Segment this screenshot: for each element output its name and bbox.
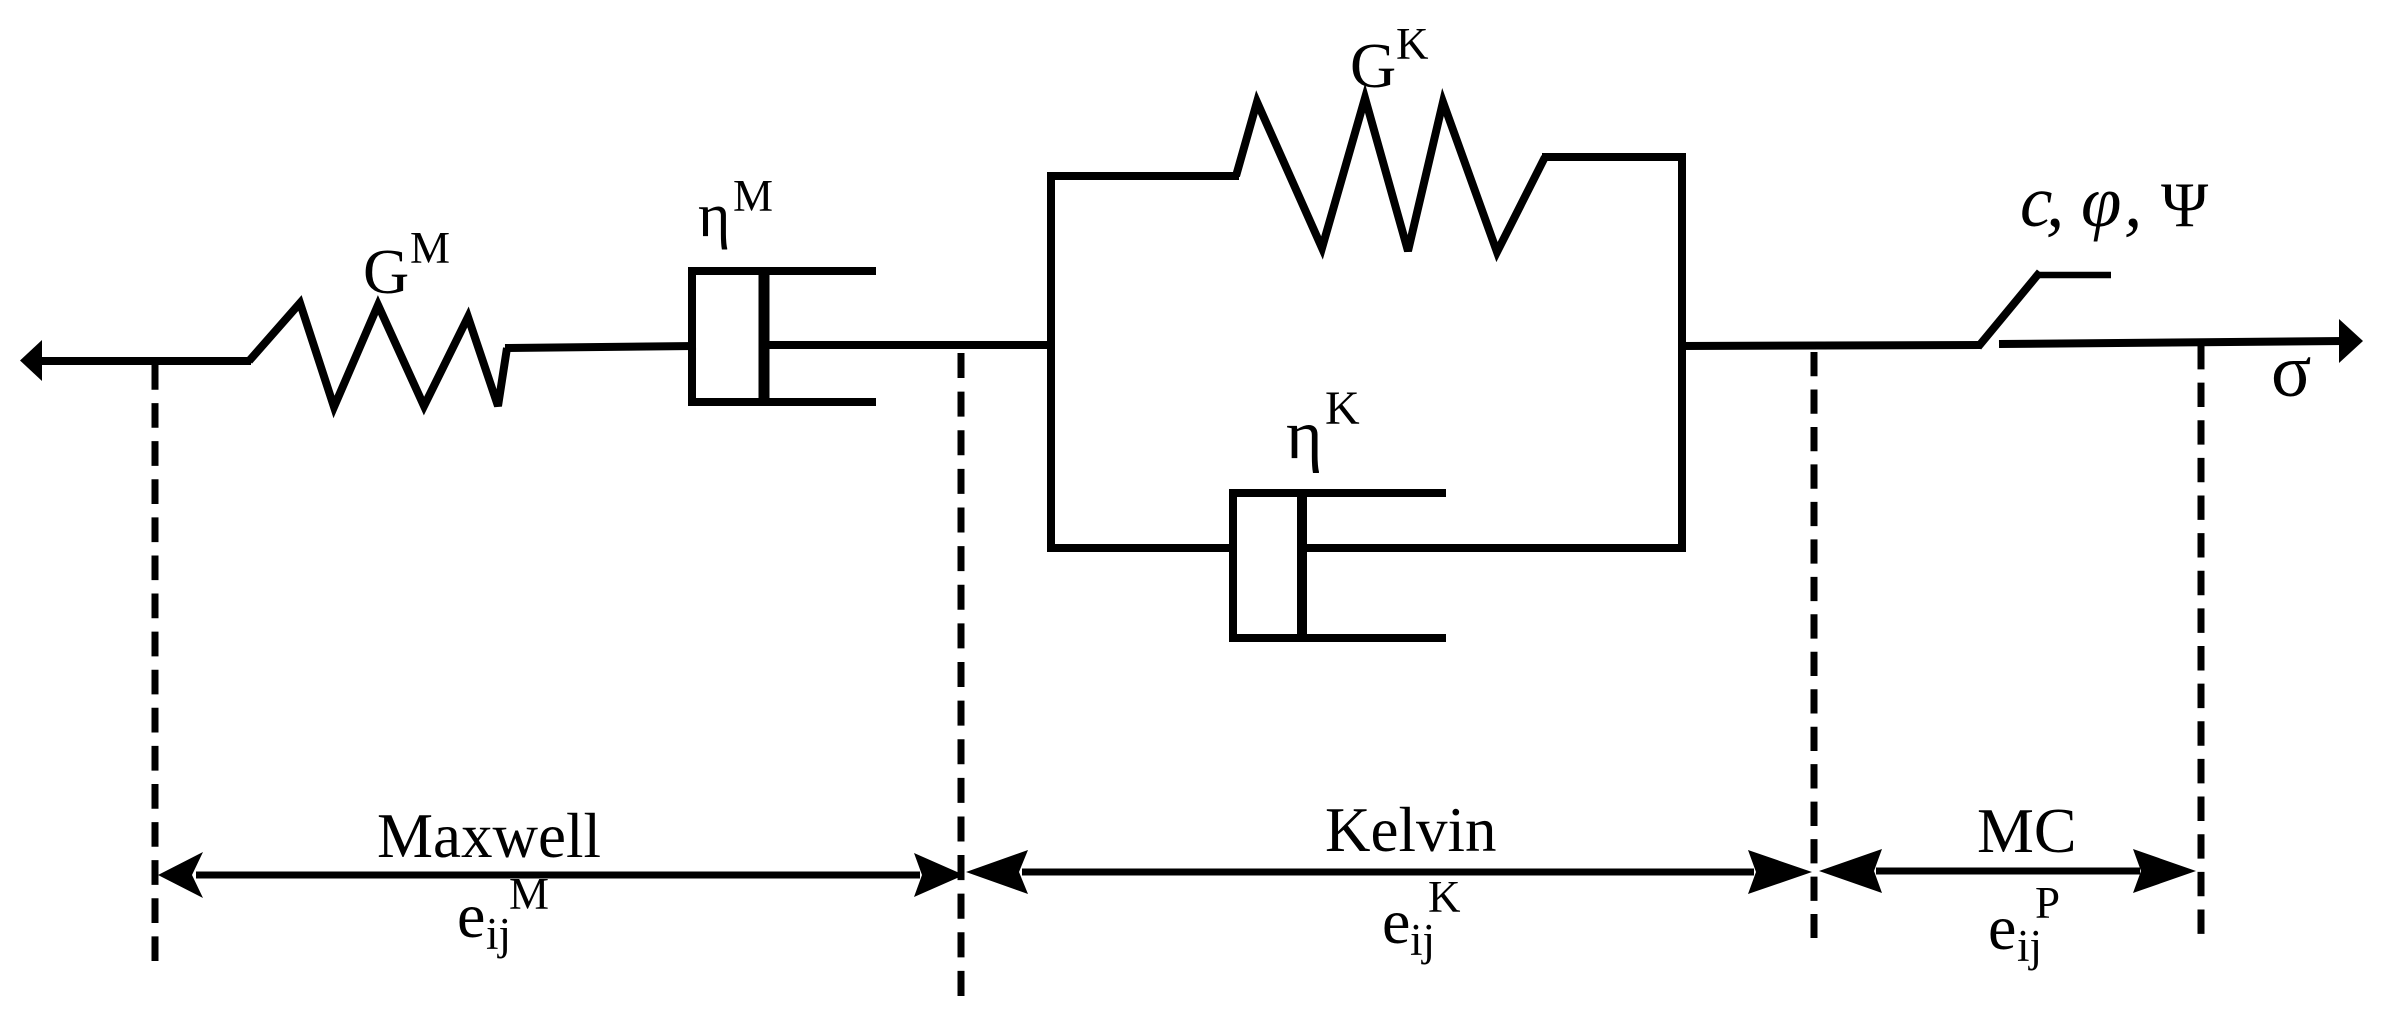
wire Kelvin block to slider: [1682, 345, 1981, 346]
spring GM (Maxwell spring): [249, 303, 507, 407]
Kelvin block top-left wire: [1047, 172, 1239, 180]
dashpot cylinder etaM: [692, 271, 876, 402]
svg-text:M: M: [509, 869, 549, 919]
svg-text:P: P: [2035, 878, 2060, 928]
label eijM: [457, 869, 549, 959]
wire slider to sigma arrow: [1999, 341, 2344, 344]
Kelvin block top-right wire: [1542, 153, 1686, 161]
Kelvin extent arrow: [966, 850, 1812, 894]
label eijK: [1382, 872, 1461, 965]
svg-text:MC: MC: [1977, 795, 2077, 866]
svg-text:η: η: [1286, 397, 1323, 474]
svg-text:ij: ij: [1410, 915, 1435, 965]
svg-text:G: G: [1350, 30, 1396, 101]
dashpot cylinder etaK: [1233, 493, 1446, 638]
Maxwell extent arrow: [158, 852, 964, 898]
svg-text:ij: ij: [2017, 921, 2042, 971]
label GM: [363, 223, 450, 307]
slider blade (Mohr-Coulomb friction element): [1978, 272, 2111, 347]
svg-text:Maxwell: Maxwell: [377, 801, 601, 871]
dashpot piston etaM: [759, 267, 770, 406]
svg-text:K: K: [1428, 872, 1461, 922]
svg-text:σ: σ: [2271, 330, 2311, 413]
svg-text:φ: φ: [2081, 161, 2121, 242]
svg-text:M: M: [733, 171, 773, 221]
node boundary dashed line 4 (right of MC): [2198, 345, 2205, 934]
wire dashpot etaM to Kelvin block: [764, 341, 1055, 349]
label MC: [1977, 795, 2077, 866]
right arrowhead (sigma load end): [2339, 319, 2363, 363]
svg-text:ij: ij: [486, 909, 511, 959]
svg-text:,: ,: [2124, 161, 2142, 242]
label Kelvin: [1325, 795, 1496, 865]
label Maxwell: [377, 801, 601, 871]
Kelvin block right wall: [1678, 153, 1686, 552]
left arrowhead (sigma reaction end): [20, 340, 42, 381]
node boundary dashed line 3 (Kelvin/MC): [1811, 352, 1818, 938]
dashpot piston etaK: [1297, 489, 1307, 642]
Kelvin block left wall: [1047, 172, 1055, 552]
svg-text:Ψ: Ψ: [2161, 169, 2209, 240]
label etaK: [1286, 382, 1360, 474]
svg-text:e: e: [1988, 892, 2016, 963]
svg-text:e: e: [457, 880, 485, 951]
svg-text:M: M: [410, 223, 450, 273]
svg-text:e: e: [1382, 886, 1410, 957]
node boundary dashed line 1 (left of Maxwell): [152, 365, 159, 961]
label GK: [1350, 19, 1429, 101]
svg-text:η: η: [698, 182, 730, 250]
node boundary dashed line 2 (Maxwell/Kelvin): [958, 353, 965, 996]
wire dashpot etaK to Kelvin right wall: [1302, 544, 1686, 552]
MC extent arrow: [1819, 849, 2196, 893]
Kelvin block bottom-left wire: [1047, 544, 1237, 552]
svg-text:G: G: [363, 236, 409, 307]
spring GK (Kelvin spring): [1236, 98, 1545, 252]
wire spring GM to dashpot: [505, 346, 696, 348]
svg-text:K: K: [1396, 19, 1429, 69]
label c, phi, Psi: [2020, 161, 2209, 242]
label etaM: [698, 171, 773, 250]
label eijP: [1988, 878, 2060, 971]
svg-text:K: K: [1325, 382, 1360, 435]
svg-text:,: ,: [2046, 161, 2064, 242]
svg-text:Kelvin: Kelvin: [1325, 795, 1496, 865]
wire left lead: [38, 357, 251, 365]
label sigma: [2271, 330, 2311, 413]
